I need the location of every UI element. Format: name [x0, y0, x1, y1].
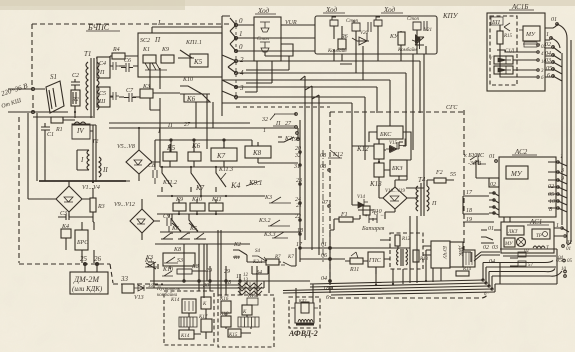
transformer T2 winding IV [72, 122, 90, 139]
svg-text:БКЗ: БКЗ [391, 166, 403, 172]
node 25 [80, 255, 88, 266]
bridge V9...V12 [114, 202, 154, 233]
contact S4 [252, 249, 267, 265]
block KPU outer [315, 16, 437, 54]
block hatch right [463, 250, 475, 267]
AC2 right terminals [548, 154, 567, 213]
dashed outline block BCHPS [19, 24, 230, 284]
bus terminal labels [293, 146, 303, 248]
relay K19 [247, 294, 258, 305]
label AC2 [514, 148, 528, 156]
label Kombain2 [397, 47, 417, 53]
resistor R7 [266, 255, 281, 265]
svg-text:К1: К1 [233, 256, 240, 261]
transformer windings [397, 246, 408, 266]
svg-text:Т4: Т4 [418, 176, 426, 184]
capacitor C6 [121, 58, 133, 72]
transformer T2 core [92, 125, 98, 182]
svg-text:10: 10 [549, 199, 555, 205]
svg-text:ЛКТ: ЛКТ [507, 230, 519, 235]
relay K6 [188, 142, 201, 167]
svg-text:R15: R15 [503, 34, 513, 39]
relay K15 [228, 329, 241, 338]
svg-text:R3: R3 [97, 204, 105, 210]
capacitor C3 [58, 211, 78, 220]
svg-text:01: 01 [551, 17, 557, 23]
svg-text:57: 57 [528, 263, 534, 268]
AFVD dashed box [288, 297, 320, 338]
diode V21 [412, 28, 432, 49]
contact K6b [171, 214, 181, 234]
relay K11 [209, 197, 223, 211]
block BKS [369, 126, 411, 148]
capacitor C9 [163, 214, 171, 232]
relay K8 [245, 142, 298, 163]
svg-text:29: 29 [224, 269, 230, 275]
svg-text:МУ: МУ [510, 170, 523, 178]
svg-text:04: 04 [321, 275, 327, 282]
inner block I top edge [152, 19, 222, 33]
contact K2 right [278, 136, 294, 142]
label K9.1 [248, 179, 262, 187]
labels 04 05 row [489, 258, 562, 265]
relay K16 [219, 297, 231, 313]
block MU in AC2 [506, 166, 528, 179]
transformer T4 [416, 176, 437, 216]
svg-text:01: 01 [488, 226, 494, 232]
block BKZ [390, 160, 407, 176]
svg-text:V9...V12: V9...V12 [114, 202, 135, 208]
right terminal circles [558, 228, 573, 277]
svg-text:02: 02 [545, 42, 551, 48]
svg-text:01: 01 [321, 242, 327, 248]
right bus terminals column [545, 32, 554, 79]
verticals into dashed relay boxes [170, 230, 269, 298]
contact K3.1 [264, 195, 291, 203]
svg-text:К11.3: К11.3 [218, 167, 233, 173]
switch Hod contacts in KPU [330, 17, 427, 32]
svg-text:Комбайн: Комбайн [397, 47, 417, 53]
svg-text:R13: R13 [419, 257, 429, 262]
svg-text:16: 16 [148, 284, 154, 289]
svg-text:К10: К10 [162, 267, 173, 273]
resistor R4 [112, 46, 125, 59]
AC1 left contacts [481, 230, 501, 243]
contact K7a [191, 167, 205, 196]
svg-text:С7: С7 [126, 88, 134, 94]
svg-text:МУ: МУ [525, 32, 536, 38]
wire bridge connections [109, 123, 250, 240]
central vertical wire [222, 16, 230, 116]
svg-text:ДИК: ДИК [457, 245, 462, 257]
svg-text:С2: С2 [72, 73, 79, 79]
label Hod 2 [325, 6, 338, 14]
wires VUR drops [245, 56, 289, 92]
svg-text:18: 18 [466, 208, 472, 214]
svg-text:VUR: VUR [285, 20, 297, 26]
wires around GPS [376, 240, 471, 285]
resistor R2 [71, 90, 80, 106]
svg-text:к БУПС: к БУПС [464, 153, 485, 159]
svg-text:+: + [364, 214, 368, 220]
winding I [77, 150, 89, 170]
label Kombain1 [327, 48, 347, 54]
block BUCH [431, 241, 450, 268]
contact K11.3 K4 [216, 167, 240, 192]
switch S1 [46, 73, 64, 113]
node 34 [255, 269, 262, 276]
wire loop box below AC1 [500, 249, 557, 284]
bridge V1...V4 [56, 184, 100, 212]
block AC1 [501, 222, 554, 253]
contact KP1.1 / relay K5 [178, 40, 208, 67]
svg-text:С1: С1 [47, 132, 54, 138]
svg-text:11: 11 [236, 274, 242, 280]
svg-text:01: 01 [566, 247, 571, 252]
block DM-2M [70, 264, 108, 294]
diode V20 [352, 31, 369, 45]
resistor R13 [413, 250, 419, 262]
contact K3 left [144, 258, 157, 267]
svg-text:Стоп: Стоп [257, 37, 270, 42]
svg-text:V13: V13 [134, 295, 144, 301]
svg-text:С6: С6 [124, 58, 131, 64]
transformer bottom1 [179, 317, 197, 327]
svg-text:01: 01 [489, 154, 495, 160]
capacitor C2 [71, 73, 80, 90]
svg-text:П: П [167, 123, 173, 129]
svg-text:V1...V4: V1...V4 [82, 184, 100, 191]
svg-text:IV: IV [76, 127, 84, 135]
transformer T1 [84, 50, 99, 118]
svg-text:33: 33 [120, 275, 129, 283]
block BRS [75, 230, 89, 250]
wire input to S1 [8, 89, 93, 117]
contact K3.3 [263, 232, 288, 238]
battery G [361, 211, 385, 232]
block AC1B [487, 13, 545, 91]
svg-text:П: П [431, 201, 437, 207]
relay K13 [369, 163, 384, 188]
svg-text:25: 25 [80, 255, 88, 263]
svg-text:1: 1 [239, 30, 243, 38]
wire thick rail [39, 180, 126, 182]
svg-text:0: 0 [239, 43, 243, 51]
svg-text:26: 26 [94, 255, 102, 263]
wires left lower [28, 112, 75, 199]
svg-text:Пускатель: Пускатель [156, 287, 181, 292]
resistor R14 [456, 267, 472, 276]
wires down from KPU [406, 54, 424, 188]
inner dashed BP [490, 16, 517, 85]
dense winding symbol P2P1 [238, 282, 262, 295]
diode V14 [352, 195, 368, 208]
svg-text:V5...V8: V5...V8 [117, 144, 135, 150]
label AC1 [529, 218, 542, 226]
bottom dashed boundary [330, 293, 488, 298]
resistor R10 [358, 206, 382, 215]
svg-text:БКС: БКС [379, 132, 392, 138]
svg-text:К6: К6 [191, 142, 201, 150]
AC1 right terminals [554, 223, 572, 246]
bus lines sloped long [283, 280, 495, 295]
block DIK [450, 242, 463, 267]
svg-text:30: 30 [202, 283, 209, 289]
AC1 lower stubs [474, 252, 500, 261]
contact K7 right [281, 255, 294, 266]
fuse F1 [334, 212, 358, 222]
svg-text:К14: К14 [180, 334, 190, 339]
labels 17 18 19 [466, 190, 473, 223]
capacitor C5 box [97, 87, 119, 107]
label Puskatel kombaina [156, 287, 181, 298]
wires in dashed boxes [189, 309, 251, 339]
dashed transformer box [390, 233, 429, 269]
contact K3.2 [258, 218, 290, 226]
left bus terminals 01 06 04 18 6 [321, 242, 329, 301]
svg-text:АФВД-2: АФВД-2 [288, 329, 318, 338]
svg-text:32: 32 [294, 153, 301, 159]
svg-text:05: 05 [548, 192, 554, 198]
svg-text:0: 0 [239, 17, 243, 25]
svg-text:Ш: Ш [98, 99, 106, 105]
block GPS [368, 252, 390, 274]
AC1B terminals [500, 44, 547, 81]
potentiometer R11 [345, 252, 368, 273]
bridge V16...V19 [383, 187, 407, 209]
dashed relay box 2 [218, 295, 274, 347]
svg-text:ДМ-2М: ДМ-2М [73, 275, 100, 284]
stabilitron V22 box [489, 56, 513, 64]
relay K3 box [140, 84, 153, 98]
dashed wire [236, 106, 330, 108]
svg-text:МУ: МУ [504, 242, 513, 247]
svg-text:02: 02 [524, 249, 530, 254]
inner box SC2 [138, 33, 222, 77]
svg-text:К3.2: К3.2 [258, 218, 270, 224]
AC2 to AC1 stubs [504, 217, 510, 222]
svg-text:V21: V21 [424, 28, 432, 33]
relay K12 [356, 139, 384, 162]
block AC2 [499, 157, 556, 217]
relay K18 [219, 312, 231, 327]
capacitor C4 box [97, 57, 119, 78]
svg-text:02: 02 [483, 245, 489, 251]
svg-text:КП1.1: КП1.1 [185, 40, 202, 46]
svg-text:02: 02 [490, 182, 496, 188]
fuse F2 [427, 170, 456, 186]
nodes 29 29 11 30 28 [202, 268, 242, 289]
KPU interior wires [334, 26, 426, 54]
resistor R6 [338, 34, 348, 49]
svg-text:R14: R14 [462, 267, 472, 272]
svg-text:R12: R12 [401, 237, 411, 242]
svg-text:ГПС: ГПС [368, 258, 382, 264]
svg-text:03: 03 [492, 245, 498, 251]
svg-text:(или КДК): (или КДК) [72, 285, 103, 293]
relay K17 [198, 315, 212, 332]
label AC1B [511, 3, 528, 11]
svg-text:П: П [99, 70, 105, 76]
right edge bus wires [551, 24, 571, 230]
wires second row [179, 199, 216, 214]
node 26 [94, 255, 102, 266]
resistor KU [389, 32, 405, 45]
svg-text:К14: К14 [170, 298, 180, 303]
capacitor C1 [41, 123, 54, 138]
label 08 K12 top [320, 152, 343, 159]
svg-text:КПУ: КПУ [442, 12, 459, 20]
lamp in AC1 [517, 238, 526, 247]
svg-text:Батарея: Батарея [361, 226, 385, 232]
switch K3 bottom left [145, 255, 158, 269]
svg-text:К8: К8 [252, 149, 262, 157]
component 02 57 [518, 249, 534, 268]
svg-text:К5: К5 [166, 144, 176, 152]
svg-text:1: 1 [546, 32, 549, 38]
contact K11.2 [162, 167, 177, 192]
svg-text:К15: К15 [228, 333, 238, 338]
svg-text:6: 6 [326, 295, 329, 301]
svg-text:10: 10 [561, 267, 567, 272]
svg-text:F2: F2 [435, 170, 443, 176]
svg-text:06: 06 [321, 253, 327, 259]
node 19 [291, 137, 299, 143]
svg-text:К7: К7 [287, 255, 294, 260]
label KPU [442, 12, 459, 20]
long bus wires to the right [236, 25, 315, 51]
label 08 07 [320, 164, 329, 206]
svg-text:К: К [242, 310, 247, 315]
wires AFVD [296, 285, 313, 304]
svg-text:55: 55 [450, 172, 456, 178]
central lower bus line [298, 120, 300, 262]
label I and 27 [157, 122, 191, 135]
AC1 left labels [483, 226, 498, 251]
KPU bottom drops [334, 54, 401, 80]
svg-text:БРС: БРС [76, 240, 89, 246]
block VUR [254, 17, 297, 61]
svg-text:Комбайн: Комбайн [327, 48, 347, 54]
svg-text:27: 27 [184, 122, 191, 128]
svg-text:19: 19 [291, 137, 297, 143]
labels 32 P 27 [261, 117, 292, 134]
central bus terminals [222, 17, 244, 100]
svg-text:К8: К8 [173, 247, 181, 253]
contact K10 / K6 [180, 77, 210, 103]
winding II [99, 157, 108, 177]
stabilitron V23 box [494, 66, 513, 74]
motor winding outer [295, 303, 314, 323]
svg-text:СГС: СГС [446, 105, 458, 111]
relay K5 [163, 144, 177, 167]
relay K17a [201, 297, 211, 309]
relay K14 [170, 298, 196, 313]
block LKT [507, 226, 524, 235]
transformer bottom2 [238, 317, 259, 327]
svg-text:ТР: ТР [536, 234, 542, 239]
svg-text:С8: С8 [148, 163, 155, 169]
svg-text:6: 6 [547, 73, 550, 79]
svg-text:К: К [202, 302, 207, 307]
svg-text:К2: К2 [233, 242, 241, 248]
svg-text:К3: К3 [264, 195, 272, 201]
svg-text:05: 05 [567, 259, 573, 264]
wire drops to lower bus [300, 76, 319, 255]
winding in AC1 [533, 246, 550, 251]
svg-text:S4: S4 [255, 249, 261, 254]
node 01 right top [545, 17, 558, 28]
block MU in AC1 [504, 238, 515, 247]
relay K4 [61, 223, 71, 238]
label Hod over VUR [257, 7, 270, 15]
contact K2 row above [233, 242, 247, 261]
svg-text:SC2: SC2 [140, 38, 150, 44]
relay K10 [190, 197, 205, 211]
svg-text:Т1: Т1 [84, 50, 91, 58]
svg-text:3: 3 [239, 84, 244, 92]
label C1D [505, 49, 515, 54]
svg-text:34: 34 [255, 269, 262, 276]
svg-text:П: П [154, 36, 161, 44]
SGS wires [330, 64, 418, 230]
svg-text:18: 18 [323, 286, 329, 292]
svg-text:К10: К10 [182, 77, 193, 83]
motor loops [298, 320, 313, 323]
diode V15 [386, 139, 405, 153]
relay feed rail [155, 139, 252, 167]
capacitor C7 [124, 88, 136, 102]
relay K14 lower [179, 330, 194, 339]
svg-text:−: − [380, 213, 384, 219]
svg-text:R1: R1 [55, 127, 63, 133]
svg-text:1: 1 [560, 154, 563, 160]
dashed relay box 1 [164, 291, 214, 345]
capacitor C8 [148, 163, 157, 184]
scanner top band [0, 0, 575, 6]
label Hod 3 [383, 6, 396, 14]
staircase bends [483, 263, 503, 293]
label k BUPS 36V [464, 153, 495, 167]
svg-text:К13: К13 [369, 180, 382, 188]
svg-text:К3.3: К3.3 [263, 232, 275, 238]
block MU small [519, 26, 540, 47]
svg-text:КУ: КУ [389, 34, 399, 40]
labels 12 13 [243, 273, 249, 283]
T4 drops to bus [410, 216, 433, 283]
bridge V5...V8 [117, 144, 152, 174]
svg-text:Стоп: Стоп [407, 17, 420, 22]
svg-text:R2: R2 [71, 97, 79, 103]
node input terminals [32, 88, 35, 91]
svg-text:К4: К4 [230, 181, 240, 190]
svg-text:05: 05 [546, 66, 552, 72]
SGS dashed box [330, 105, 464, 297]
svg-text:17: 17 [466, 190, 473, 196]
relay K20 [242, 305, 252, 315]
block TR in AC1 [532, 229, 550, 239]
svg-text:II: II [102, 166, 108, 174]
AC2 left terminals [489, 160, 499, 215]
bottom center: box K8 with S3 [163, 247, 195, 266]
motor winding inner [301, 302, 309, 313]
relay K9 [173, 197, 186, 211]
label 220~36V [0, 82, 29, 110]
bottom rails [150, 271, 310, 285]
motor bottom bar [296, 324, 314, 326]
svg-text:2: 2 [240, 56, 244, 64]
inner bus lines right [490, 256, 562, 276]
